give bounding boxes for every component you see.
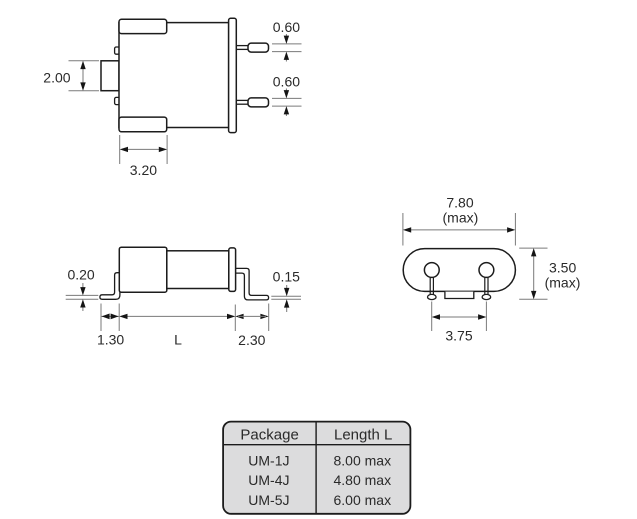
pin 2 wire (front) (484, 270, 486, 296)
table column divider (315, 422, 317, 514)
table frame (223, 422, 410, 514)
dimension 7.80 double arrow (406, 229, 513, 231)
dimension 3.50 witness lines (519, 247, 547, 249)
left formed lead (100, 273, 120, 300)
svg-text:UM-5J: UM-5J (248, 492, 289, 508)
svg-text:UM-1J: UM-1J (248, 452, 289, 468)
footprint extension line (foot right end) (268, 304, 270, 332)
svg-text:2.00: 2.00 (43, 69, 70, 85)
svg-text:8.00 max: 8.00 max (334, 452, 392, 468)
table header divider (223, 444, 410, 446)
dimension 1.30 arrows (101, 315, 119, 317)
svg-text:0.20: 0.20 (67, 267, 94, 283)
dimension 3.75 witness lines (431, 302, 433, 332)
pin 2 head circle (479, 263, 494, 278)
pin 1 wire (235, 46, 249, 50)
pin 1 foot (428, 294, 437, 299)
dimension 0.60 (pin 2) witness lines (272, 97, 302, 99)
dimension 3.75 double arrow (435, 316, 484, 318)
dimension 0.60 (pin 2) arrows (285, 89, 287, 96)
pin 2 end cap (248, 98, 269, 107)
pin 2 wire (235, 100, 249, 104)
svg-text:UM-4J: UM-4J (248, 472, 289, 488)
dimension 3.20 double arrow (123, 148, 165, 150)
body outline (119, 23, 229, 128)
dimension 2.00 double arrow (82, 64, 84, 89)
right end plate (229, 18, 237, 132)
dimension 0.15 witness lines (271, 295, 301, 297)
dimension 2.30 double arrow (235, 314, 243, 319)
bottom-left mounting tab (119, 117, 167, 132)
svg-text:1.30: 1.30 (97, 332, 124, 348)
footprint extension line (foot left end) (100, 304, 102, 332)
end plate (229, 248, 236, 292)
right formed lead (235, 268, 269, 300)
lower small nub (115, 97, 120, 104)
cylinder body (right) (167, 251, 229, 289)
svg-text:0.60: 0.60 (273, 73, 300, 89)
svg-text:0.15: 0.15 (273, 269, 300, 285)
upper small nub (115, 47, 120, 54)
base notch (445, 292, 474, 299)
dimension 0.20 witness lines (66, 294, 99, 296)
svg-text:0.60: 0.60 (273, 19, 300, 35)
can outline (stadium) (403, 249, 515, 292)
svg-text:3.50: 3.50 (549, 260, 576, 276)
dimension 7.80 witness lines (402, 213, 404, 246)
top-left mounting tab (119, 19, 167, 33)
dimension L double arrow (122, 315, 233, 317)
svg-text:7.80: 7.80 (446, 194, 473, 210)
dimension 0.15 arrows (286, 285, 288, 294)
svg-text:Package: Package (240, 427, 298, 444)
svg-text:Length L: Length L (334, 427, 392, 444)
dimension 3.50 double arrow (533, 251, 535, 297)
pin 1 end cap (248, 43, 269, 52)
dimension 0.60 (pin 1) arrows (285, 34, 287, 41)
svg-text:(max): (max) (545, 275, 581, 291)
svg-text:2.30: 2.30 (238, 332, 265, 348)
svg-text:3.20: 3.20 (130, 162, 157, 178)
svg-text:3.75: 3.75 (445, 328, 472, 344)
svg-text:6.00 max: 6.00 max (334, 492, 392, 508)
svg-text:L: L (174, 331, 182, 347)
holder block (left) (119, 247, 167, 292)
footprint extension line (plate right edge) (234, 305, 236, 332)
dimension 0.60 (pin 1) witness lines (272, 43, 302, 45)
left protrusion tab (101, 61, 119, 91)
svg-text:4.80 max: 4.80 max (334, 472, 392, 488)
pin 1 wire (front) (429, 270, 431, 296)
dimension 0.20 arrows (82, 283, 84, 293)
pin 1 head circle (424, 263, 439, 278)
svg-text:(max): (max) (443, 209, 479, 225)
dimension 2.00 witness lines (69, 60, 100, 62)
footprint extension line (holder left edge) (118, 304, 120, 332)
dimension 3.20 witness lines (119, 135, 121, 164)
pin 2 foot (482, 294, 491, 299)
